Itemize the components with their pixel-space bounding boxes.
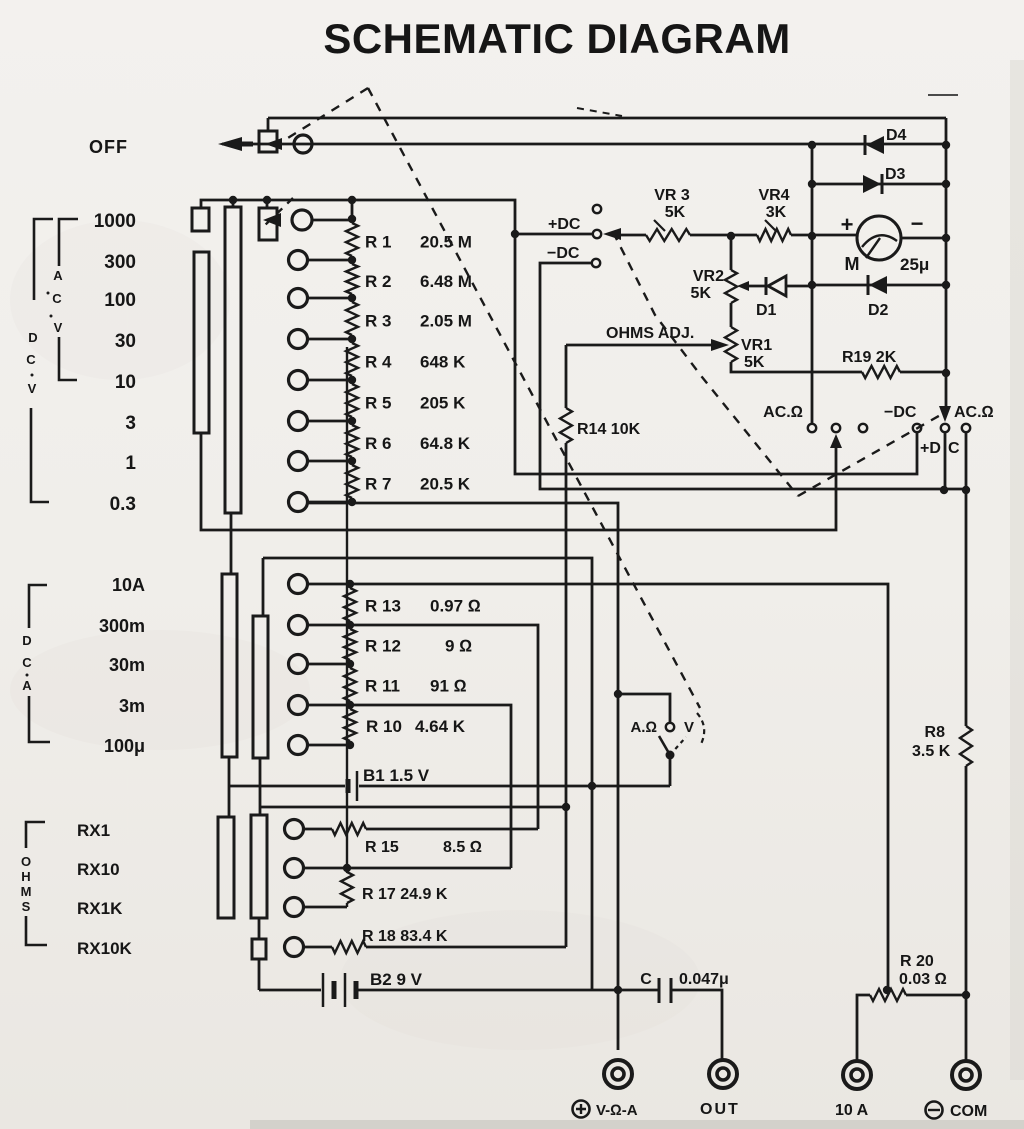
capacitor C plates — [659, 978, 671, 1003]
wire chain top drop — [351, 200, 354, 219]
svg-text:205 K: 205 K — [420, 394, 466, 413]
wire OHMS ADJ to VR1 wiper — [566, 344, 712, 347]
resistor R8 zigzag — [960, 726, 972, 766]
svg-text:10 A: 10 A — [835, 1102, 869, 1119]
svg-text:V: V — [54, 320, 63, 335]
wire contact 3V to chain — [307, 420, 352, 423]
symbol minus in circle — [926, 1102, 943, 1119]
wire bar F tap to R14 bus — [260, 806, 566, 809]
potentiometer VR3 zigzag — [646, 229, 690, 241]
wire 300m row to R15 corner — [307, 625, 538, 829]
resistor R2 zigzag — [346, 260, 358, 298]
svg-text:COM: COM — [950, 1103, 987, 1120]
contact RX10K — [285, 938, 304, 957]
junction A-chain row 10A — [346, 580, 354, 588]
wire top rail horizontal — [268, 117, 946, 120]
svg-text:R 6: R 6 — [365, 434, 391, 453]
switch bar F — [251, 815, 267, 918]
junction R20 right — [962, 991, 970, 999]
junction VR2 column top — [727, 232, 735, 240]
svg-text:648 K: 648 K — [420, 353, 466, 372]
wire bar D to bar F — [259, 758, 262, 815]
diode D2 bar — [867, 275, 870, 295]
svg-text:30: 30 — [115, 331, 136, 352]
svg-text:R 5: R 5 — [365, 394, 391, 413]
svg-text:10: 10 — [115, 372, 136, 393]
svg-text:300m: 300m — [99, 616, 145, 636]
contact 30V — [289, 330, 308, 349]
terminal OUT — [709, 1060, 737, 1088]
svg-text:D4: D4 — [886, 127, 907, 144]
svg-text:VR4: VR4 — [758, 187, 789, 204]
contact -DC bottom right — [913, 424, 921, 432]
svg-text:4.64 K: 4.64 K — [415, 717, 466, 736]
wire RX10 row — [303, 867, 511, 870]
contact 30m — [289, 655, 308, 674]
contact +DC top — [593, 230, 601, 238]
wire bar C to bar E — [228, 757, 231, 817]
diode D4 triangle — [866, 136, 884, 154]
contact OFF — [294, 135, 312, 153]
svg-text:R14 10K: R14 10K — [577, 421, 641, 438]
wire VR3 input — [621, 234, 646, 237]
wire 100u row — [307, 744, 350, 747]
svg-text:−DC: −DC — [547, 245, 580, 262]
svg-text:C: C — [52, 291, 62, 306]
svg-text:0.03 Ω: 0.03 Ω — [899, 971, 947, 988]
bracket DC.V — [31, 219, 53, 502]
switch box 1000 wiper — [259, 208, 277, 240]
wire R7 row to output bus — [307, 503, 618, 1050]
bracket AC.V — [59, 219, 78, 380]
resistor R15 zigzag — [332, 823, 366, 835]
wire RX10K to R18 — [303, 946, 332, 949]
junction A-chain row 3m — [346, 701, 354, 709]
svg-text:−DC: −DC — [884, 404, 917, 421]
dashed linkage left branch — [283, 88, 368, 141]
wire R15 right to 300m corner — [366, 828, 538, 831]
svg-text:R 13: R 13 — [365, 597, 401, 616]
wire contact 0.3V to chain — [307, 501, 352, 504]
switch bar D — [253, 616, 268, 758]
resistor R12 zigzag — [344, 629, 356, 660]
svg-text:A.Ω: A.Ω — [630, 719, 657, 736]
svg-text:3: 3 — [125, 413, 136, 434]
switch lever solid — [659, 736, 670, 755]
svg-text:100μ: 100μ — [104, 736, 145, 756]
svg-text:D: D — [22, 633, 31, 648]
junction D4 right — [942, 141, 950, 149]
wire R17 bottom stub — [346, 903, 348, 907]
arrow OFF contact pointer — [265, 138, 282, 150]
wire D1 to D2 node — [785, 285, 812, 288]
svg-text:C: C — [26, 352, 36, 367]
svg-text:+DC: +DC — [548, 216, 581, 233]
meter M body — [857, 216, 901, 260]
svg-text:V: V — [28, 381, 37, 396]
diode D2 triangle — [869, 276, 887, 294]
switch pivot A-ohm V — [666, 751, 675, 760]
svg-text:100: 100 — [104, 290, 136, 311]
svg-text:3K: 3K — [766, 204, 787, 221]
svg-text:RX10: RX10 — [77, 860, 120, 879]
wire contact 1V to chain — [307, 460, 352, 463]
terminal 10A — [843, 1061, 871, 1089]
contact RX10 — [285, 859, 304, 878]
wire +DC tap — [515, 233, 592, 236]
junction chain row 100 — [348, 294, 356, 302]
svg-text:S: S — [22, 899, 31, 914]
junction chain row 0.3 — [348, 498, 356, 506]
arrow wiper at +DC bottom contact — [939, 406, 951, 422]
contact 300V — [289, 251, 308, 270]
wire bar D feed — [263, 558, 592, 990]
svg-text:M: M — [21, 884, 32, 899]
junction chain top — [348, 196, 356, 204]
wire 3m row to RX10 corner — [307, 705, 511, 868]
contact 1V — [289, 452, 308, 471]
switch box OFF wiper — [259, 131, 277, 152]
wire B1 left — [229, 785, 345, 788]
diode D1 triangle outline — [768, 276, 786, 296]
svg-text:VR1: VR1 — [741, 337, 772, 354]
svg-text:3.5 K: 3.5 K — [912, 743, 951, 760]
resistor R14 zigzag — [560, 408, 572, 443]
contact 100&#956; — [289, 736, 308, 755]
svg-text:R19 2K: R19 2K — [842, 349, 897, 366]
contact RX1 — [285, 820, 304, 839]
svg-text:1000: 1000 — [94, 211, 136, 232]
resistor R6 zigzag — [346, 421, 358, 461]
svg-text:OFF: OFF — [89, 137, 128, 157]
junction box stub — [263, 196, 271, 204]
contact 100V — [289, 289, 308, 308]
meter scale arc — [862, 235, 897, 247]
svg-text:C: C — [640, 971, 652, 988]
arrow wiper at +DC top contact — [603, 228, 621, 240]
svg-text:R 11: R 11 — [365, 677, 400, 696]
svg-text:3m: 3m — [119, 696, 145, 716]
contact 3V — [289, 412, 308, 431]
arrow VR2 wiper — [737, 281, 749, 291]
junction +DC tap — [511, 230, 519, 238]
contact 1000 — [292, 210, 312, 230]
junction bus at R8 column — [962, 486, 970, 494]
wire VR2 column upper — [730, 236, 733, 270]
arrow OHMS ADJ wiper — [711, 339, 729, 351]
wire VR3 to VR4 — [690, 234, 757, 237]
wire bar B to bar C — [230, 513, 233, 574]
svg-text:D1: D1 — [756, 302, 777, 319]
junction D1 D2 node — [808, 281, 816, 289]
battery B1 long plate — [356, 771, 359, 801]
junction meter plus node — [808, 232, 816, 240]
svg-text:0.047μ: 0.047μ — [679, 971, 729, 988]
wire D2 row — [812, 284, 946, 287]
wire 1000 contact to R1 — [312, 219, 352, 222]
svg-text:B1 1.5 V: B1 1.5 V — [363, 766, 430, 785]
wire bar A feed long — [201, 433, 836, 530]
svg-text:R 10: R 10 — [366, 717, 402, 736]
svg-text:OHMS ADJ.: OHMS ADJ. — [606, 325, 694, 342]
svg-text:−: − — [911, 211, 924, 236]
contact 3m — [289, 696, 308, 715]
bracket OHMS — [26, 822, 47, 945]
wire contact 30V to chain — [307, 338, 352, 341]
dashed top right tick — [577, 108, 622, 116]
junction chain row 1000 — [348, 215, 356, 223]
potentiometer VR2 zigzag — [725, 270, 737, 303]
junction bus at +DC drop — [940, 486, 948, 494]
junction A-chain row 30m — [346, 660, 354, 668]
wiper tick VR4 — [765, 220, 776, 231]
wire B2 left — [259, 989, 321, 992]
diode D3 bar — [881, 174, 884, 194]
svg-text:+D: +D — [920, 440, 941, 457]
wire OFF arrow tail — [242, 142, 253, 147]
svg-text:5K: 5K — [744, 354, 765, 371]
svg-text:5K: 5K — [691, 285, 712, 302]
diode D4 bar — [864, 135, 867, 155]
wire VR4 to meter — [791, 234, 857, 237]
svg-text:V-Ω-A: V-Ω-A — [596, 1102, 638, 1119]
svg-text:10A: 10A — [112, 575, 145, 595]
switch box G RX10K wiper — [252, 939, 266, 959]
contact 0.3V — [289, 493, 308, 512]
contact spare above +DC — [593, 205, 601, 213]
svg-text:R 12: R 12 — [365, 637, 401, 656]
svg-text:R 15: R 15 — [365, 839, 399, 856]
contact spare small — [859, 424, 867, 432]
wire OFF row / D4 row — [222, 143, 946, 146]
wire R8 column upper — [965, 432, 968, 726]
svg-text:VR2: VR2 — [693, 268, 724, 285]
resistor R4 zigzag — [346, 339, 358, 380]
wire OFF box stub to top rail — [267, 118, 270, 131]
svg-text:R 1: R 1 — [365, 233, 391, 252]
diode D1 bar — [765, 277, 768, 295]
potentiometer VR4 zigzag — [757, 229, 791, 241]
resistor R18 zigzag — [332, 941, 366, 953]
dashed linkage main diagonal — [368, 88, 700, 708]
junction output bus at A-ohm switch — [614, 690, 622, 698]
wire meter plus bus vertical — [811, 145, 814, 423]
wire R8 column lower to COM — [965, 766, 968, 1060]
switch bar B tall — [225, 207, 241, 513]
dashed linkage 1000 tick — [262, 198, 293, 228]
dashed linkage right V up — [798, 413, 944, 496]
svg-text:SCHEMATIC DIAGRAM: SCHEMATIC DIAGRAM — [323, 15, 790, 62]
wire 10A terminal up and R20 left — [857, 995, 870, 1061]
contact RX1K — [285, 898, 304, 917]
battery B2 plates — [323, 973, 345, 1007]
resistor R3 zigzag — [346, 298, 358, 339]
junction bar D feed at B1 bus — [588, 782, 596, 790]
wire bar B stub — [232, 200, 235, 207]
svg-text:300: 300 — [104, 252, 136, 273]
svg-text:AC.Ω: AC.Ω — [763, 404, 803, 421]
svg-text:1: 1 — [125, 453, 136, 474]
wire VR2 to VR1 — [730, 303, 733, 327]
wire right rail vertical — [945, 118, 948, 406]
junction A-chain row 300m — [346, 621, 354, 629]
svg-text:R8: R8 — [925, 724, 946, 741]
wire capacitor to OUT — [671, 990, 722, 1060]
junction chain row 1 — [348, 457, 356, 465]
junction D4 left — [808, 141, 816, 149]
switch lever arc dashed — [697, 713, 704, 744]
junction A-chain row 100u — [346, 741, 354, 749]
wire 10A row — [307, 584, 888, 991]
junction D3 right — [942, 180, 950, 188]
svg-text:D: D — [28, 330, 37, 345]
resistor R1 zigzag — [346, 219, 358, 260]
wire pivot down to B1 bus — [669, 755, 672, 786]
terminal COM — [952, 1061, 980, 1089]
svg-text:R 18 83.4 K: R 18 83.4 K — [362, 928, 448, 945]
junction chain row 3 — [348, 417, 356, 425]
svg-text:RX1: RX1 — [77, 821, 110, 840]
svg-text:R 17 24.9 K: R 17 24.9 K — [362, 886, 448, 903]
svg-text:R 20: R 20 — [900, 953, 934, 970]
resistor R7 zigzag — [346, 461, 358, 502]
stray scan mark — [928, 94, 958, 96]
svg-text:5K: 5K — [665, 204, 686, 221]
wire switch common top — [201, 200, 917, 474]
wire contact 10V to chain — [307, 379, 352, 382]
svg-text:25μ: 25μ — [900, 255, 929, 274]
wire B2 right to capacitor — [358, 989, 659, 992]
arrow wiper up at mid contact — [830, 434, 842, 448]
contact AC-ohm left — [808, 424, 816, 432]
wire R20 right — [906, 994, 966, 997]
svg-text:R 2: R 2 — [365, 272, 391, 291]
svg-text:RX1K: RX1K — [77, 899, 123, 918]
svg-text:20.5 M: 20.5 M — [420, 233, 472, 252]
resistor R19 zigzag — [862, 366, 900, 378]
svg-text:B2 9 V: B2 9 V — [370, 970, 423, 989]
junction meter right rail — [942, 234, 950, 242]
wire contact 100V to chain — [307, 297, 352, 300]
svg-text:6.48 M: 6.48 M — [420, 272, 472, 291]
contact mid unlabeled — [832, 424, 840, 432]
symbol plus in circle — [573, 1101, 590, 1118]
svg-text:R 3: R 3 — [365, 312, 391, 331]
wire D3 row — [812, 183, 946, 186]
contact 300m — [289, 616, 308, 635]
svg-text:+: + — [841, 212, 854, 237]
junction R14 bus with RX10K feed — [562, 803, 570, 811]
svg-text:O: O — [21, 854, 31, 869]
junction output bus at capacitor wire — [614, 986, 622, 994]
potentiometer VR1 zigzag — [725, 327, 737, 362]
svg-text:V: V — [684, 719, 694, 736]
resistor R11 zigzag — [344, 668, 356, 701]
contact 10A — [289, 575, 308, 594]
svg-text:0.97 Ω: 0.97 Ω — [430, 597, 481, 616]
resistor R10 zigzag — [344, 709, 356, 741]
arrow 1000 contact pointer — [263, 213, 281, 227]
wire A-ohm stub — [618, 694, 670, 723]
svg-text:D2: D2 — [868, 302, 889, 319]
wire bar D stub — [262, 558, 265, 616]
switch bar E — [218, 817, 234, 918]
contact +DC bottom right — [941, 424, 949, 432]
meter needle — [866, 238, 880, 258]
resistor R13 zigzag — [344, 588, 356, 621]
dashed linkage right V down — [613, 232, 798, 496]
junction D3 left — [808, 180, 816, 188]
wire box3 stub — [266, 200, 269, 208]
contact A-ohm — [666, 723, 674, 731]
junction R19 right rail — [942, 369, 950, 377]
switch box small left — [192, 208, 209, 231]
diode D3 triangle — [863, 175, 881, 193]
svg-text:9 Ω: 9 Ω — [445, 637, 472, 656]
wire meter to right rail — [901, 237, 946, 240]
svg-text:A: A — [53, 268, 63, 283]
resistor R20 zigzag — [870, 989, 906, 1001]
contact -DC top — [592, 259, 600, 267]
svg-text:R 7: R 7 — [365, 475, 391, 494]
wire +DC contact down to common bus — [944, 433, 947, 490]
wire box G to B2 — [258, 959, 261, 990]
wire RX1 to R15 — [303, 828, 332, 831]
wire R14 column upper — [565, 345, 568, 408]
svg-text:C: C — [948, 440, 960, 457]
svg-text:2.05 M: 2.05 M — [420, 312, 472, 331]
terminal V-ohm-A — [604, 1060, 632, 1088]
svg-text:91 Ω: 91 Ω — [430, 677, 467, 696]
junction chain row 30 — [348, 335, 356, 343]
wire VR1 bottom to R19 — [731, 362, 862, 372]
svg-text:64.8 K: 64.8 K — [420, 434, 471, 453]
wire bar F to box G — [258, 918, 261, 939]
junction 10A rail at R20 — [883, 986, 891, 994]
wiper tick VR3 — [654, 220, 665, 231]
contact 10V — [289, 371, 308, 390]
resistor R17 zigzag — [341, 347, 353, 903]
svg-text:VR 3: VR 3 — [654, 187, 690, 204]
svg-text:H: H — [21, 869, 30, 884]
contact AC-ohm right — [962, 424, 970, 432]
battery B1 short plate — [346, 779, 351, 793]
wire -DC top to common bus — [540, 263, 966, 489]
svg-text:AC.Ω: AC.Ω — [954, 404, 994, 421]
wire VR2 wiper to D1 — [749, 285, 766, 288]
svg-text:20.5 K: 20.5 K — [420, 475, 471, 494]
bracket DC.A — [29, 585, 50, 742]
wire RX1K row — [303, 906, 347, 909]
svg-text:30m: 30m — [109, 655, 145, 675]
svg-text:C: C — [22, 655, 32, 670]
wire contact 300V to chain — [307, 259, 352, 262]
junction chain row 300 — [348, 256, 356, 264]
svg-text:M: M — [845, 254, 860, 274]
wire R18 right to R14 bus — [366, 946, 566, 949]
wire R19 to right rail — [900, 371, 946, 374]
svg-text:8.5 Ω: 8.5 Ω — [443, 839, 482, 856]
svg-text:RX10K: RX10K — [77, 939, 133, 958]
switch bar A — [194, 252, 209, 433]
junction D2 right rail — [942, 281, 950, 289]
wire B1 right to pivot — [359, 785, 670, 788]
svg-text:0.3: 0.3 — [110, 494, 136, 515]
wire R14 column lower — [565, 443, 568, 947]
svg-text:D3: D3 — [885, 166, 906, 183]
arrow OFF wiper tip left — [218, 137, 242, 151]
junction RX10 at R17 — [343, 864, 351, 872]
